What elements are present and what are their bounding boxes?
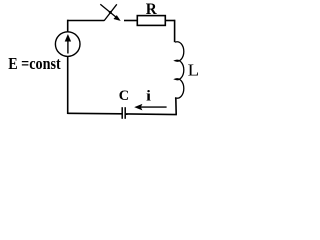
wire right riser (corner down to coil) xyxy=(174,20,176,43)
svg-text:R: R xyxy=(146,1,158,18)
switch closing arrow xyxy=(100,4,120,20)
svg-text:i: i xyxy=(146,88,151,104)
wire coil to bottom-right corner xyxy=(175,98,177,115)
wire left riser upper (source up to corner) xyxy=(67,20,69,32)
current arrow i xyxy=(135,104,167,109)
svg-text:L: L xyxy=(188,60,200,79)
svg-text:C: C xyxy=(119,88,129,104)
capacitor C left plate xyxy=(121,107,123,119)
bottom wire left (capacitor to corner) xyxy=(68,112,122,115)
wire resistor to top-right corner xyxy=(165,20,174,22)
bottom wire right (corner to capacitor) xyxy=(126,113,177,116)
wire left riser lower (corner up to source) xyxy=(67,57,69,115)
svg-text:E =const: E =const xyxy=(8,54,61,73)
resistor R body xyxy=(137,16,165,26)
wire top-left horizontal (corner to switch) xyxy=(68,20,105,22)
source arrow (inside circle, pointing up) xyxy=(65,34,71,53)
source E circle xyxy=(55,32,80,57)
wire switch to resistor xyxy=(124,20,137,22)
switch S blade xyxy=(104,4,117,21)
capacitor C right plate xyxy=(124,107,126,119)
inductor L coil (3 bumps) xyxy=(175,42,184,98)
switch pivot junction dot xyxy=(109,11,112,14)
